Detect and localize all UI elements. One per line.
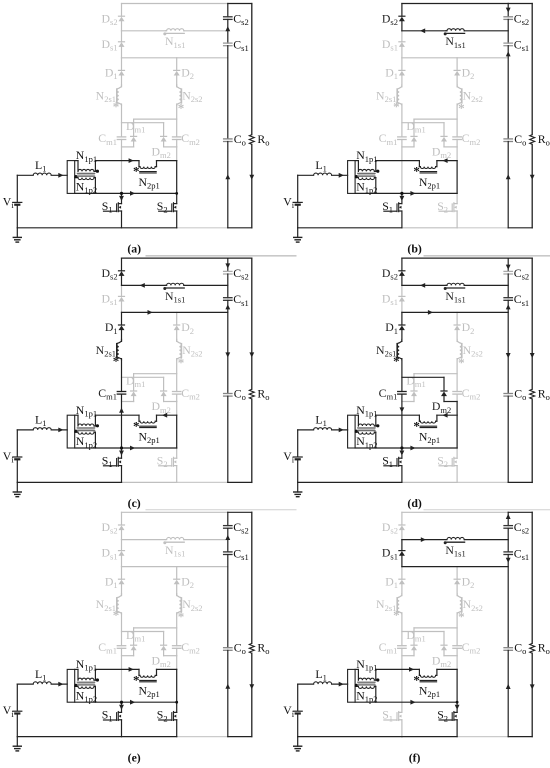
diode Ds2 (e) bbox=[119, 526, 125, 531]
inductor N1s1 winding (b) bbox=[402, 30, 446, 32]
diode D2 (c) bbox=[174, 326, 180, 331]
rule line (b) bbox=[424, 255, 550, 257]
capacitor Cm1 (c) bbox=[117, 391, 125, 393]
wire output rail bottom (a) bbox=[228, 227, 252, 229]
diode Dm1 (a) bbox=[131, 137, 137, 142]
arrow S1 drain current (b) bbox=[400, 196, 405, 201]
inductor L1 (d) bbox=[314, 428, 332, 430]
transformer core bar (c) bbox=[67, 415, 75, 448]
diode Ds1 (b) bbox=[399, 42, 405, 47]
wire Dm1 anode to Cm1 column (d) bbox=[413, 396, 415, 401]
ground (a) bbox=[16, 228, 18, 238]
wire node W3 to loop corner (f) bbox=[456, 656, 458, 670]
arrow N1s1 current left (b) bbox=[420, 28, 425, 33]
ground (f) bbox=[297, 737, 299, 747]
wire rail Cs2 segment (e) bbox=[227, 512, 229, 525]
capacitor Cs2 (d) bbox=[504, 270, 512, 272]
wire Cm2 to node W3 (f) bbox=[456, 648, 458, 655]
wire D1 to N2s1 (c) bbox=[121, 330, 123, 340]
inductor N2s1 winding (f) bbox=[397, 595, 402, 613]
arrow N1s1 current right (f) bbox=[421, 537, 426, 542]
inductor N1p2 winding (e) bbox=[75, 685, 78, 687]
arrow input current (d) bbox=[339, 428, 344, 433]
source Vi battery (c) bbox=[13, 456, 22, 458]
inductor N1s1 winding (f) bbox=[402, 539, 446, 541]
capacitor Cm2 (b) bbox=[453, 136, 461, 138]
svg-text:*: * bbox=[113, 608, 120, 623]
wire rail Co-bottom segment (e) bbox=[227, 650, 229, 736]
arrow N1s1 current left (d) bbox=[420, 283, 425, 288]
transformer core bar (b) bbox=[348, 161, 356, 194]
polarity dot N1p2 (c) bbox=[74, 430, 77, 433]
wire Dm1 cathode to Cm2 column (b) bbox=[414, 118, 457, 120]
wire node58 to output rail (c) bbox=[122, 311, 228, 313]
wire Dm2 anode to Cm2 column (a) bbox=[163, 142, 165, 147]
arrow load current down (c) bbox=[249, 352, 254, 357]
wire Ds2 column top (a) bbox=[121, 4, 123, 17]
arrow input current (a) bbox=[58, 173, 63, 178]
wire N2p1 loop top left (c) bbox=[95, 414, 139, 416]
capacitor Cm1 (f) bbox=[398, 645, 406, 647]
wire ground bus left (b) bbox=[298, 227, 402, 229]
ground (d) bbox=[297, 482, 299, 492]
wire node58 to D1 (a) bbox=[121, 58, 123, 71]
resistor Ro (c) bbox=[249, 389, 254, 399]
arrow output current up (b) bbox=[506, 174, 511, 179]
wire Vi positive lead (d) bbox=[297, 430, 299, 457]
arrow rail current down (c) bbox=[225, 352, 230, 357]
wire Ds2 to N1s1 node (e) bbox=[121, 530, 123, 539]
wire output rail top (f) bbox=[508, 511, 532, 513]
wire N2p1 loop bottom (c) bbox=[75, 447, 177, 449]
wire Dm1 anode to Cm1 column (c) bbox=[133, 396, 135, 401]
transistor S1 (e) bbox=[121, 702, 123, 712]
diode D1 (b) bbox=[399, 71, 405, 76]
wire Cm1 to node P1 (e) bbox=[121, 648, 123, 702]
inductor N1p2 winding (c) bbox=[75, 431, 78, 433]
wire Ds1 to node58 (f) bbox=[401, 556, 403, 567]
wire Ds2 column top (d) bbox=[401, 258, 403, 271]
wire ground bus to rail (c) bbox=[177, 481, 228, 483]
transistor S2 (f) bbox=[456, 702, 458, 712]
wire Vi positive lead (e) bbox=[16, 684, 18, 711]
wire Vi to L1 (c) bbox=[17, 429, 33, 431]
transistor S2 (b) bbox=[456, 193, 458, 203]
arrow input current (e) bbox=[58, 682, 63, 687]
transistor S2 (e) bbox=[176, 702, 178, 712]
rule line (d) bbox=[424, 509, 550, 511]
wire load rail lower (b) bbox=[531, 144, 533, 227]
wire Dm1 anode to Cm1 column (a) bbox=[133, 142, 135, 147]
arrow node58 current right (c) bbox=[148, 310, 153, 315]
capacitor Cm1 (b) bbox=[398, 136, 406, 138]
wire N1s1 node to Ds1 (a) bbox=[121, 31, 123, 42]
wire rail Cs1-Co segment (f) bbox=[507, 555, 509, 648]
wire Cm2 to node W3 (e) bbox=[176, 648, 178, 655]
rule line (c) bbox=[146, 509, 296, 511]
wire rail Co-bottom segment (d) bbox=[507, 396, 509, 482]
capacitor Cm2 (f) bbox=[453, 645, 461, 647]
wire N2p1 loop bottom (e) bbox=[75, 701, 177, 703]
arrow rail charge up (f) bbox=[506, 514, 511, 519]
wire Ds1 to node58 (a) bbox=[121, 47, 123, 58]
capacitor Co (f) bbox=[504, 647, 512, 649]
wire N1s1 node to Ds1 (c) bbox=[121, 285, 123, 296]
capacitor Cs2 (c) bbox=[224, 270, 232, 272]
wire rail Cs2 segment (f) bbox=[507, 512, 509, 525]
wire ground bus to rail (f) bbox=[457, 736, 508, 738]
diode Dm1 (b) bbox=[411, 137, 417, 142]
wire Dm2 cathode to Cm1 column (b) bbox=[402, 122, 444, 124]
wire N2p1 loop bottom (b) bbox=[355, 192, 457, 194]
polarity dot N1p1 (b) bbox=[376, 170, 379, 173]
wire Vi positive lead (f) bbox=[297, 684, 299, 711]
wire rail Cs1-Co segment (a) bbox=[227, 46, 229, 139]
wire Dm2 cathode to Cm1 column (d) bbox=[402, 376, 444, 378]
arrow S2 drain current (f) bbox=[455, 705, 460, 710]
source Vi battery (f) bbox=[293, 710, 302, 712]
capacitor Co (a) bbox=[224, 138, 232, 140]
wire N1s1 node to Ds1 (f) bbox=[401, 540, 403, 551]
svg-text:*: * bbox=[458, 355, 465, 370]
capacitor Co (d) bbox=[504, 393, 512, 395]
diode Dm2 (b) bbox=[441, 137, 447, 142]
wire D2 to N2s2 (a) bbox=[176, 76, 178, 86]
arrow rail charge down (c) bbox=[225, 263, 230, 268]
diode Dm1 (c) bbox=[131, 392, 137, 397]
wire ground bus left (e) bbox=[17, 736, 121, 738]
wire rail Cs2 segment (d) bbox=[507, 258, 509, 271]
arrow S1 drain current (a) bbox=[119, 196, 124, 201]
wire node W3 to loop corner (d) bbox=[456, 402, 458, 416]
wire Dm1 cathode to Cm2 column (d) bbox=[414, 373, 457, 375]
arrow input current (b) bbox=[339, 173, 344, 178]
wire ground bus left (d) bbox=[298, 481, 402, 483]
capacitor Co (c) bbox=[224, 393, 232, 395]
wire rail Co-bottom segment (c) bbox=[227, 396, 229, 482]
resistor Ro (d) bbox=[530, 389, 535, 399]
diode Ds2 (d) bbox=[399, 271, 405, 276]
transformer core laminations (c) bbox=[77, 428, 95, 431]
wire node58 to D2 (a) bbox=[176, 58, 178, 71]
wire ground bus to rail (b) bbox=[457, 227, 508, 229]
svg-text:*: * bbox=[178, 609, 185, 624]
arrow loop top current right (a) bbox=[129, 158, 134, 163]
resistor Ro (a) bbox=[249, 135, 254, 145]
arrow loop top current left (b) bbox=[442, 158, 447, 163]
arrow S1 drain current (e) bbox=[119, 705, 124, 710]
inductor N2p1 winding (e) bbox=[138, 669, 140, 675]
inductor N1p1 winding (b) bbox=[355, 160, 358, 162]
wire N2p1 loop top left (f) bbox=[376, 668, 420, 670]
arrow N1s1 current left (c) bbox=[140, 283, 145, 288]
inductor N2s1 winding (d) bbox=[397, 341, 402, 359]
transistor S1 (f) bbox=[401, 702, 403, 712]
inductor N2s1 winding (c) bbox=[117, 341, 122, 359]
wire ground bus middle (f) bbox=[402, 736, 457, 738]
wire load rail lower (e) bbox=[251, 653, 253, 736]
wire Ds2 to N1s1 node (a) bbox=[121, 21, 123, 30]
wire Dm2 anode to Cm2 column (e) bbox=[163, 650, 165, 655]
transformer core bar (e) bbox=[67, 669, 75, 702]
wire Ds2 to N1s1 node (b) bbox=[401, 21, 403, 30]
wire Cm1 to node P1 (d) bbox=[401, 394, 403, 448]
wire Ds1 to node58 (d) bbox=[401, 302, 403, 313]
wire Dm2 cathode to Cm1 column (c) bbox=[122, 376, 164, 378]
arrow rail current down (f) bbox=[506, 558, 511, 563]
junction node P1 (a) bbox=[120, 192, 123, 195]
wire output rail top (b) bbox=[508, 3, 532, 5]
wire Vi positive lead (c) bbox=[16, 430, 18, 457]
wire ground bus to rail (a) bbox=[177, 227, 228, 229]
wire N2p1 loop top right (f) bbox=[437, 668, 457, 670]
capacitor Cs1 (d) bbox=[504, 297, 512, 299]
wire Vi positive lead (a) bbox=[16, 175, 18, 202]
wire Vi negative lead (a) bbox=[16, 206, 18, 228]
diode Dm2 (a) bbox=[161, 137, 167, 142]
diode D2 (e) bbox=[174, 580, 180, 585]
diode Dm2 (f) bbox=[441, 646, 447, 651]
wire rail Cs1-Co segment (d) bbox=[507, 300, 509, 393]
wire node58 to D2 (e) bbox=[176, 567, 178, 580]
wire rail Cs2-Cs1 segment (f) bbox=[507, 528, 509, 552]
wire N2s1 to Cm1 (c) bbox=[121, 360, 123, 392]
wire Cm2 to node W3 (b) bbox=[456, 140, 458, 147]
wire rail Cs2-Cs1 segment (c) bbox=[227, 274, 229, 298]
inductor N1p2 winding (a) bbox=[75, 177, 78, 179]
inductor N2p1 winding (d) bbox=[418, 415, 420, 421]
arrow loop bottom current right (b) bbox=[410, 191, 415, 196]
inductor N2s1 winding (e) bbox=[117, 595, 122, 613]
inductor L1 (c) bbox=[33, 428, 51, 430]
diode Dm1 (d) bbox=[411, 392, 417, 397]
wire Cm2 to node W3 (a) bbox=[176, 140, 178, 147]
diode Dm2 (d) bbox=[441, 392, 447, 397]
arrow input current (f) bbox=[339, 682, 344, 687]
wire node58 to D1 (e) bbox=[121, 567, 123, 580]
transformer core bar (a) bbox=[67, 161, 75, 194]
wire N2p1 loop bottom (a) bbox=[75, 192, 177, 194]
wire N2s1 to Cm1 (e) bbox=[121, 614, 123, 646]
wire D2 to N2s2 (b) bbox=[456, 76, 458, 86]
wire rail Cs2-Cs1 segment (d) bbox=[507, 274, 509, 298]
wire load rail upper (d) bbox=[531, 258, 533, 389]
wire N2s2 to Cm2 (c) bbox=[176, 360, 178, 392]
junction node P2 (a) bbox=[175, 192, 178, 195]
wire Cm1 to node P1 (a) bbox=[121, 140, 123, 194]
capacitor Cs2 (f) bbox=[504, 525, 512, 527]
wire Vi to L1 (e) bbox=[17, 683, 33, 685]
wire D1 to N2s1 (e) bbox=[121, 584, 123, 594]
wire D2 to N2s2 (f) bbox=[456, 584, 458, 594]
arrow load current down (f) bbox=[530, 684, 535, 689]
wire Ds2 to N1s1 node (d) bbox=[401, 276, 403, 285]
diode D2 (d) bbox=[454, 326, 460, 331]
svg-text:*: * bbox=[458, 609, 465, 624]
wire load rail upper (a) bbox=[251, 4, 253, 135]
wire N2p1 loop top right (b) bbox=[437, 160, 457, 162]
arrow Cm1 branch current down (d) bbox=[400, 407, 405, 412]
diode D1 (d) bbox=[399, 326, 405, 331]
diode Dm1 (f) bbox=[411, 646, 417, 651]
diode Ds1 (a) bbox=[119, 42, 125, 47]
svg-text:(b): (b) bbox=[407, 242, 421, 256]
svg-text:*: * bbox=[393, 99, 400, 114]
source Vi battery (d) bbox=[293, 456, 302, 458]
capacitor Cs1 (c) bbox=[224, 297, 232, 299]
wire Ds2 column top (b) bbox=[401, 4, 403, 17]
inductor N1p1 winding (d) bbox=[355, 414, 358, 416]
wire ground bus to rail (e) bbox=[177, 736, 228, 738]
wire Dm1 anode to Cm1 column (f) bbox=[413, 650, 415, 655]
arrow Cm1 branch current up (c) bbox=[119, 408, 124, 413]
arrow input current (c) bbox=[58, 428, 63, 433]
ground (b) bbox=[297, 228, 299, 238]
inductor N2s1 winding (b) bbox=[397, 87, 402, 105]
wire output rail bottom (f) bbox=[508, 736, 532, 738]
polarity dot N1p2 (f) bbox=[355, 684, 358, 687]
arrow rail current down (d) bbox=[506, 353, 511, 358]
wire Cm1 to node P1 (f) bbox=[401, 648, 403, 702]
wire node58 to D2 (f) bbox=[456, 567, 458, 580]
wire rail Cs2-Cs1 segment (b) bbox=[507, 19, 509, 43]
arrow load current down (a) bbox=[249, 175, 254, 180]
arrow loop bottom current right (f) bbox=[410, 700, 415, 705]
inductor N2p1 winding (b) bbox=[418, 161, 420, 167]
wire rail Cs1-Co segment (e) bbox=[227, 555, 229, 648]
wire rail Cs1-Co segment (c) bbox=[227, 300, 229, 393]
wire rail Cs2-Cs1 segment (a) bbox=[227, 19, 229, 43]
wire top rail (c) bbox=[122, 257, 228, 259]
svg-text:(c): (c) bbox=[128, 496, 141, 510]
arrow S1 drain current (d) bbox=[400, 451, 405, 456]
inductor N2s2 winding (c) bbox=[177, 341, 182, 359]
wire Vi to L1 (f) bbox=[298, 683, 314, 685]
source Vi battery (b) bbox=[293, 201, 302, 203]
wire node58 to output rail (d) bbox=[402, 311, 508, 313]
polarity dot N1p1 (e) bbox=[96, 678, 99, 681]
inductor N1p1 winding (e) bbox=[75, 668, 78, 670]
wire Vi negative lead (d) bbox=[297, 460, 299, 482]
wire N2p1 loop top left (a) bbox=[95, 160, 139, 162]
diode D2 (b) bbox=[454, 71, 460, 76]
wire Dm1 cathode to Cm2 column (f) bbox=[414, 627, 457, 629]
transistor S1 (a) bbox=[121, 193, 123, 203]
wire N2p1 loop bottom (d) bbox=[355, 447, 457, 449]
polarity dot N1p1 (f) bbox=[376, 678, 379, 681]
arrow output current up (a) bbox=[225, 174, 230, 179]
wire output rail top (e) bbox=[228, 511, 252, 513]
diode D1 (e) bbox=[119, 580, 125, 585]
polarity dot N1p1 (d) bbox=[376, 424, 379, 427]
wire D1 to N2s1 (b) bbox=[401, 76, 403, 86]
transformer core laminations (d) bbox=[358, 428, 376, 431]
wire Vi negative lead (b) bbox=[297, 206, 299, 228]
rule line (a) bbox=[146, 255, 296, 257]
wire load rail lower (c) bbox=[251, 399, 253, 482]
wire node58 to D1 (c) bbox=[121, 312, 123, 325]
wire node58 to D1 (f) bbox=[401, 567, 403, 580]
inductor N1s1 winding (e) bbox=[122, 539, 166, 541]
wire Dm1 anode to Cm1 column (e) bbox=[133, 650, 135, 655]
wire load rail upper (c) bbox=[251, 258, 253, 389]
wire Vi negative lead (e) bbox=[16, 715, 18, 737]
svg-text:*: * bbox=[458, 100, 465, 115]
svg-text:(f): (f) bbox=[409, 750, 421, 764]
wire rail Co-bottom segment (f) bbox=[507, 650, 509, 736]
svg-text:*: * bbox=[393, 353, 400, 368]
wire node58 to D1 (b) bbox=[401, 58, 403, 71]
wire Dm2 anode to Cm2 column (f) bbox=[443, 650, 445, 655]
wire Ds1 to node58 (c) bbox=[121, 302, 123, 313]
wire N2s2 to Cm2 (d) bbox=[456, 360, 458, 392]
transistor S1 (b) bbox=[401, 193, 403, 203]
wire Vi to L1 (b) bbox=[298, 174, 314, 176]
diode Ds2 (a) bbox=[119, 17, 125, 22]
wire N2p1 loop top left (b) bbox=[376, 160, 420, 162]
arrow rail charge up (a) bbox=[225, 26, 230, 31]
inductor N1s1 winding (c) bbox=[122, 284, 166, 286]
polarity dot N1p2 (e) bbox=[74, 684, 77, 687]
inductor N2s2 winding (d) bbox=[457, 341, 462, 359]
wire top rail (e) bbox=[122, 511, 228, 513]
wire output rail top (d) bbox=[508, 257, 532, 259]
wire Ds1 to node58 (e) bbox=[121, 556, 123, 567]
capacitor Cs1 (f) bbox=[504, 551, 512, 553]
inductor N2s2 winding (a) bbox=[177, 87, 182, 105]
wire node58 to output rail (f) bbox=[402, 566, 508, 568]
wire N2p1 loop right side (c) bbox=[176, 415, 178, 448]
arrow loop bottom current right (d) bbox=[410, 446, 415, 451]
svg-text:(d): (d) bbox=[407, 496, 421, 510]
arrow output current up (e) bbox=[225, 684, 230, 689]
wire node58 to D2 (c) bbox=[176, 312, 178, 325]
wire Cm2 to node W3 (d) bbox=[456, 394, 458, 401]
wire N2s1 to Cm1 (f) bbox=[401, 614, 403, 646]
wire Ds1 to node58 (b) bbox=[401, 47, 403, 58]
arrow load current down (b) bbox=[530, 175, 535, 180]
inductor N2s2 winding (b) bbox=[457, 87, 462, 105]
wire ground bus middle (b) bbox=[402, 227, 457, 229]
junction node P1 (b) bbox=[400, 192, 403, 195]
diode Dm1 (e) bbox=[131, 646, 137, 651]
wire load rail upper (f) bbox=[531, 512, 533, 643]
inductor N1p2 winding (d) bbox=[355, 431, 358, 433]
capacitor Cs1 (b) bbox=[504, 42, 512, 44]
arrow S1 drain current (c) bbox=[119, 451, 124, 456]
inductor N2p1 winding (a) bbox=[138, 161, 140, 167]
wire N2s1 to Cm1 (d) bbox=[401, 360, 403, 392]
junction node P1 (e) bbox=[120, 701, 123, 704]
wire ground bus middle (e) bbox=[122, 736, 177, 738]
wire node58 to D2 (d) bbox=[456, 312, 458, 325]
wire output rail bottom (d) bbox=[508, 481, 532, 483]
transformer core bar (f) bbox=[348, 669, 356, 702]
wire load rail upper (b) bbox=[531, 4, 533, 135]
wire rail Cs1-Co segment (b) bbox=[507, 46, 509, 139]
wire N2p1 loop bottom (f) bbox=[355, 701, 457, 703]
transformer core laminations (e) bbox=[77, 682, 95, 685]
diode Ds2 (b) bbox=[399, 17, 405, 22]
inductor N2s1 winding (a) bbox=[117, 87, 122, 105]
wire N2p1 loop top left (d) bbox=[376, 414, 420, 416]
arrow loop top current left (c) bbox=[162, 413, 167, 418]
wire N1s1 node to Ds1 (b) bbox=[401, 31, 403, 42]
wire N2s2 to Cm2 (e) bbox=[176, 614, 178, 646]
wire N2p1 loop top right (a) bbox=[157, 160, 177, 162]
wire output rail bottom (c) bbox=[228, 481, 252, 483]
svg-text:*: * bbox=[113, 353, 120, 368]
